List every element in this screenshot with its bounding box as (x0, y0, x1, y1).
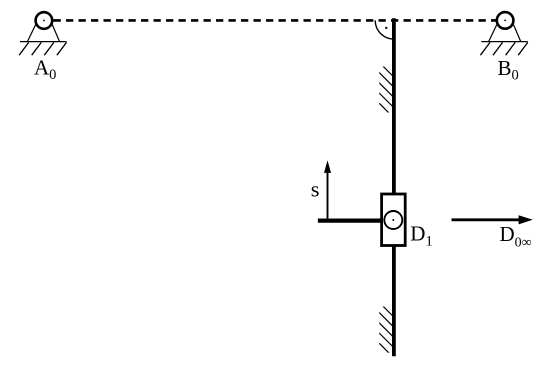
svg-text:s: s (311, 176, 320, 201)
hatching: lower fixed-guide hatch band (378, 301, 393, 357)
svg-text:B0: B0 (498, 56, 519, 84)
svg-text:D1: D1 (410, 222, 432, 250)
arrow s (displacement) (324, 160, 331, 218)
svg-text:D0∞: D0∞ (500, 222, 532, 251)
right-angle mark with dot (375, 20, 394, 39)
wire: dashed frame line A0-B0 (54, 19, 497, 22)
node B0 fixed pivot (480, 12, 527, 55)
hatching: upper fixed-guide hatch band (378, 61, 393, 117)
link: vertical slider guide line (392, 18, 396, 356)
link bar to slider (318, 218, 382, 222)
slider block D1 (382, 194, 406, 246)
arrow D0inf (direction) (452, 215, 533, 224)
svg-text:A0: A0 (34, 55, 56, 83)
node A0 fixed pivot (19, 12, 66, 55)
